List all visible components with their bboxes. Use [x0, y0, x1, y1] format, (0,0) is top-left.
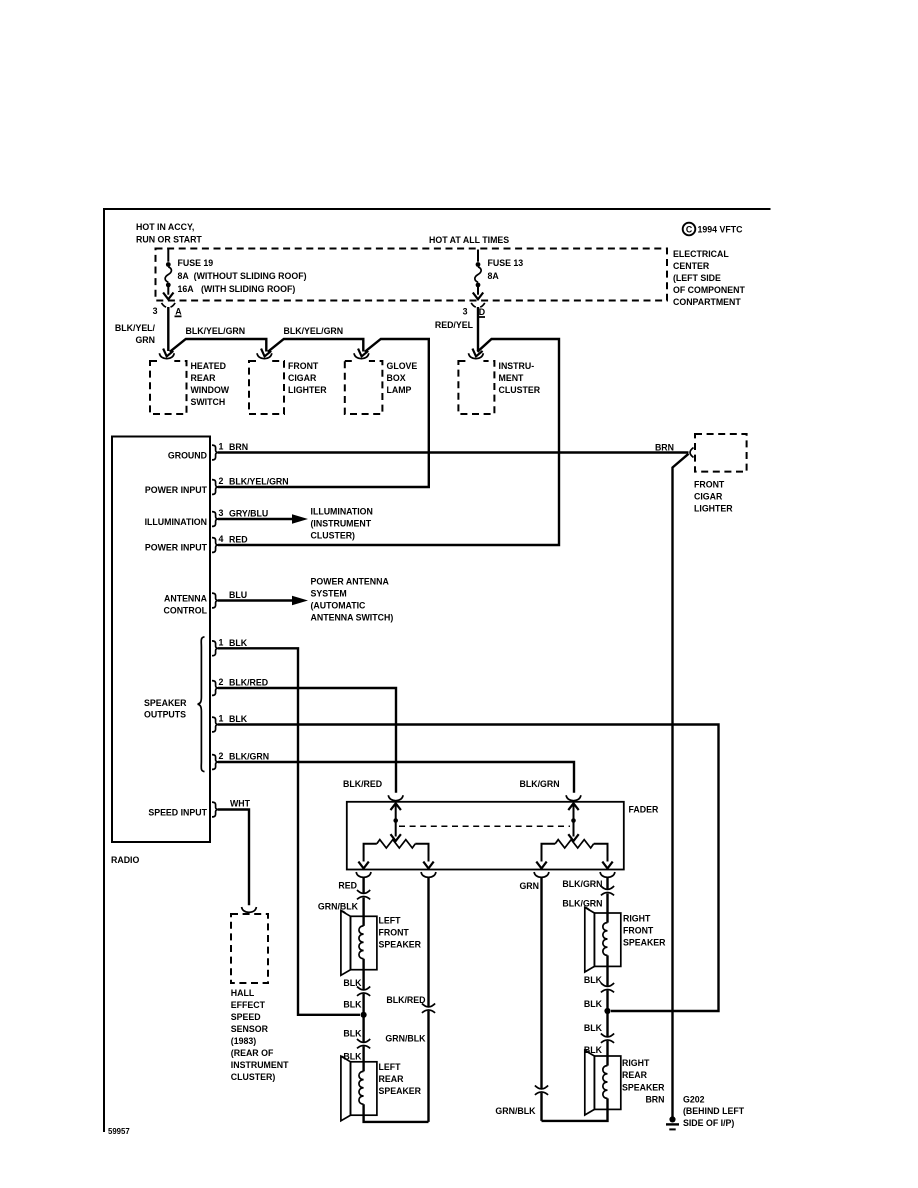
svg-text:SYSTEM: SYSTEM	[311, 589, 347, 599]
svg-text:GRN/BLK: GRN/BLK	[495, 1106, 536, 1116]
svg-text:BRN: BRN	[645, 1095, 664, 1105]
svg-text:1: 1	[219, 714, 224, 724]
svg-text:CIGAR: CIGAR	[694, 492, 723, 502]
svg-text:4: 4	[219, 534, 224, 544]
svg-text:INSTRU-: INSTRU-	[499, 361, 535, 371]
svg-text:CLUSTER): CLUSTER)	[231, 1072, 276, 1082]
svg-text:BLK: BLK	[343, 1052, 362, 1062]
svg-text:INSTRUMENT: INSTRUMENT	[231, 1060, 289, 1070]
svg-text:BRN: BRN	[655, 443, 674, 453]
svg-text:CONPARTMENT: CONPARTMENT	[673, 297, 741, 307]
svg-text:RADIO: RADIO	[111, 855, 140, 865]
svg-text:HOT IN ACCY,: HOT IN ACCY,	[136, 222, 194, 232]
svg-text:GRN: GRN	[135, 335, 155, 345]
svg-text:LEFT: LEFT	[379, 1062, 402, 1072]
svg-text:(REAR OF: (REAR OF	[231, 1048, 274, 1058]
svg-text:OF COMPONENT: OF COMPONENT	[673, 285, 745, 295]
svg-text:GLOVE: GLOVE	[387, 361, 418, 371]
svg-text:BOX: BOX	[387, 373, 406, 383]
svg-text:ANTENNA: ANTENNA	[164, 594, 208, 604]
svg-text:RED: RED	[338, 881, 357, 891]
svg-text:BRN: BRN	[229, 442, 248, 452]
svg-text:GRN/BLK: GRN/BLK	[318, 902, 359, 912]
svg-text:GRN: GRN	[519, 881, 539, 891]
svg-text:2: 2	[219, 751, 224, 761]
svg-text:RED: RED	[229, 535, 248, 545]
svg-text:BLK/GRN: BLK/GRN	[520, 779, 560, 789]
svg-text:LAMP: LAMP	[387, 385, 412, 395]
svg-text:WINDOW: WINDOW	[191, 385, 230, 395]
svg-text:SPEED: SPEED	[231, 1012, 261, 1022]
svg-text:LEFT: LEFT	[379, 916, 402, 926]
svg-text:3: 3	[219, 508, 224, 518]
svg-text:3: 3	[153, 306, 158, 316]
svg-text:LIGHTER: LIGHTER	[288, 385, 327, 395]
svg-text:BLK: BLK	[584, 1045, 603, 1055]
svg-text:HOT AT ALL TIMES: HOT AT ALL TIMES	[429, 235, 509, 245]
svg-text:SPEED INPUT: SPEED INPUT	[148, 808, 207, 818]
svg-text:FUSE 19: FUSE 19	[178, 258, 214, 268]
svg-text:POWER INPUT: POWER INPUT	[145, 543, 208, 553]
svg-text:(BEHIND LEFT: (BEHIND LEFT	[683, 1106, 745, 1116]
svg-text:BLK/RED: BLK/RED	[229, 678, 268, 688]
svg-text:BLK/YEL/GRN: BLK/YEL/GRN	[284, 326, 344, 336]
svg-text:(1983): (1983)	[231, 1036, 256, 1046]
svg-text:8A: 8A	[488, 271, 500, 281]
svg-text:FRONT: FRONT	[288, 361, 319, 371]
svg-text:GRN/BLK: GRN/BLK	[385, 1034, 426, 1044]
svg-text:BLK/YEL/GRN: BLK/YEL/GRN	[186, 326, 246, 336]
svg-text:SENSOR: SENSOR	[231, 1024, 269, 1034]
svg-text:HALL: HALL	[231, 988, 255, 998]
svg-text:LIGHTER: LIGHTER	[694, 504, 733, 514]
svg-text:BLK: BLK	[229, 638, 248, 648]
svg-text:OUTPUTS: OUTPUTS	[144, 710, 186, 720]
svg-text:SPEAKER: SPEAKER	[622, 1083, 665, 1093]
svg-text:(LEFT SIDE: (LEFT SIDE	[673, 273, 721, 283]
svg-text:BLK/YEL/: BLK/YEL/	[115, 323, 156, 333]
svg-text:HEATED: HEATED	[191, 361, 227, 371]
svg-text:ILLUMINATION: ILLUMINATION	[145, 517, 207, 527]
svg-text:ILLUMINATION: ILLUMINATION	[311, 507, 373, 517]
svg-text:RIGHT: RIGHT	[622, 1058, 650, 1068]
svg-text:BLK/GRN: BLK/GRN	[562, 899, 602, 909]
svg-text:FRONT: FRONT	[694, 480, 725, 490]
svg-text:RUN OR START: RUN OR START	[136, 235, 202, 245]
svg-text:CENTER: CENTER	[673, 261, 710, 271]
svg-text:CIGAR: CIGAR	[288, 373, 317, 383]
svg-text:3: 3	[463, 307, 468, 317]
svg-text:SPEAKER: SPEAKER	[623, 938, 666, 948]
svg-text:(INSTRUMENT: (INSTRUMENT	[311, 519, 372, 529]
svg-text:A: A	[175, 307, 182, 317]
svg-text:BLK/RED: BLK/RED	[386, 995, 425, 1005]
svg-text:BLU: BLU	[229, 590, 247, 600]
svg-text:SPEAKER: SPEAKER	[379, 1086, 422, 1096]
svg-text:REAR: REAR	[379, 1074, 405, 1084]
svg-text:8A (WITHOUT SLIDING ROOF): 8A (WITHOUT SLIDING ROOF)	[178, 271, 307, 281]
svg-text:2: 2	[219, 476, 224, 486]
svg-text:ELECTRICAL: ELECTRICAL	[673, 249, 729, 259]
svg-text:WHT: WHT	[230, 799, 251, 809]
svg-text:SWITCH: SWITCH	[191, 397, 226, 407]
svg-text:BLK/GRN: BLK/GRN	[562, 879, 602, 889]
svg-text:ANTENNA SWITCH): ANTENNA SWITCH)	[311, 613, 394, 623]
svg-text:BLK: BLK	[343, 1000, 362, 1010]
svg-text:GRY/BLU: GRY/BLU	[229, 509, 268, 519]
svg-text:BLK/GRN: BLK/GRN	[229, 752, 269, 762]
svg-text:EFFECT: EFFECT	[231, 1000, 266, 1010]
svg-text:BLK: BLK	[584, 975, 603, 985]
svg-text:FRONT: FRONT	[379, 928, 410, 938]
svg-text:1: 1	[219, 442, 224, 452]
svg-text:BLK: BLK	[584, 1023, 603, 1033]
svg-text:REAR: REAR	[622, 1070, 648, 1080]
svg-text:RIGHT: RIGHT	[623, 914, 651, 924]
svg-text:1: 1	[219, 637, 224, 647]
svg-text:2: 2	[219, 677, 224, 687]
svg-text:BLK: BLK	[229, 714, 248, 724]
svg-text:BLK: BLK	[584, 999, 603, 1009]
svg-text:MENT: MENT	[499, 373, 525, 383]
svg-text:SPEAKER: SPEAKER	[144, 698, 187, 708]
svg-text:D: D	[479, 307, 485, 317]
svg-text:G202: G202	[683, 1095, 705, 1105]
svg-text:FRONT: FRONT	[623, 926, 654, 936]
svg-text:FADER: FADER	[629, 805, 659, 815]
svg-text:59957: 59957	[108, 1127, 130, 1136]
svg-text:SIDE OF I/P): SIDE OF I/P)	[683, 1118, 734, 1128]
svg-text:(AUTOMATIC: (AUTOMATIC	[311, 601, 367, 611]
svg-text:RED/YEL: RED/YEL	[435, 320, 474, 330]
svg-text:POWER INPUT: POWER INPUT	[145, 485, 208, 495]
svg-text:BLK: BLK	[343, 1029, 362, 1039]
svg-text:CLUSTER: CLUSTER	[499, 385, 541, 395]
svg-text:GROUND: GROUND	[168, 451, 207, 461]
svg-text:1994 VFTC: 1994 VFTC	[698, 225, 744, 235]
svg-text:POWER ANTENNA: POWER ANTENNA	[311, 577, 390, 587]
svg-text:CONTROL: CONTROL	[164, 606, 208, 616]
svg-text:FUSE 13: FUSE 13	[488, 258, 524, 268]
svg-text:CLUSTER): CLUSTER)	[311, 531, 356, 541]
svg-text:BLK/RED: BLK/RED	[343, 779, 382, 789]
svg-text:SPEAKER: SPEAKER	[379, 940, 422, 950]
svg-text:REAR: REAR	[191, 373, 217, 383]
svg-text:C: C	[686, 224, 693, 234]
svg-text:16A (WITH SLIDING ROOF): 16A (WITH SLIDING ROOF)	[178, 284, 296, 294]
svg-text:BLK/YEL/GRN: BLK/YEL/GRN	[229, 477, 289, 487]
svg-text:BLK: BLK	[343, 978, 362, 988]
